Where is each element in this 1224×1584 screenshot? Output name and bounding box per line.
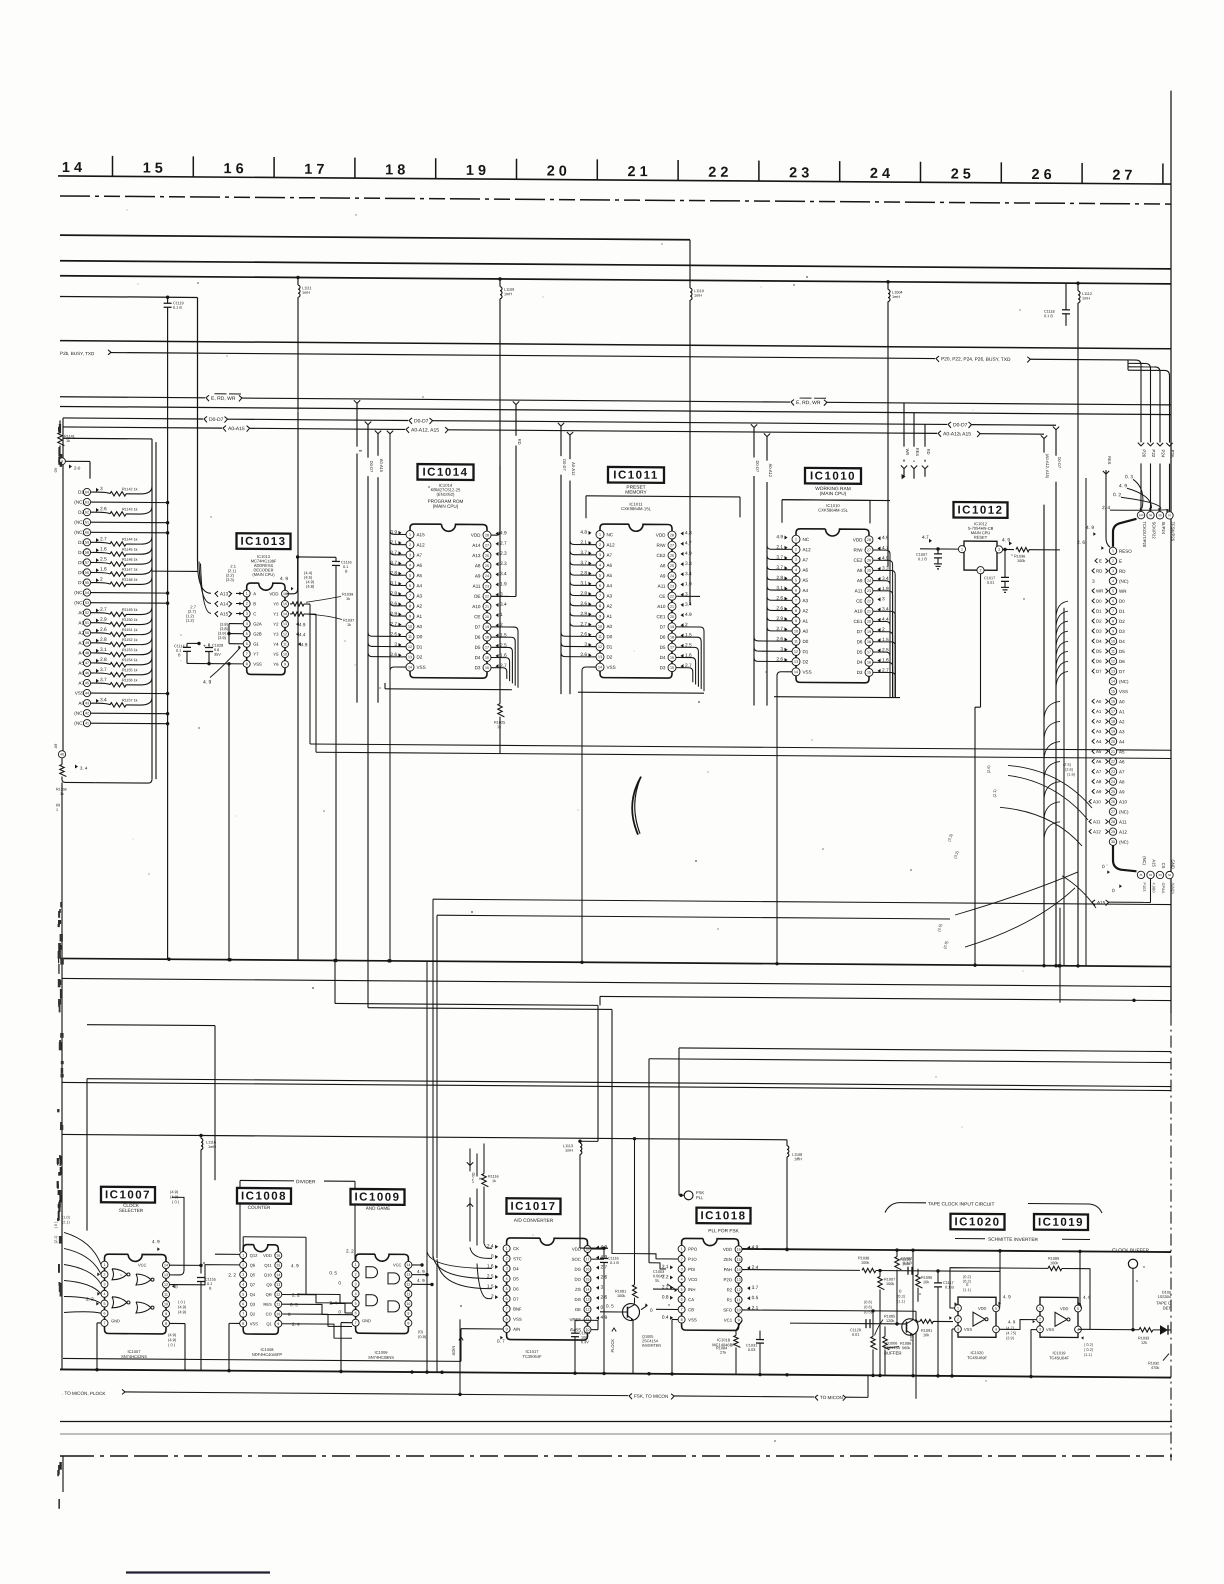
svg-text:D4: D4 [1119, 639, 1125, 644]
svg-text:R1144 1k: R1144 1k [122, 537, 138, 541]
svg-text:14: 14 [598, 665, 602, 669]
svg-text:6.3V: 6.3V [581, 1340, 589, 1344]
svg-text:A15: A15 [220, 611, 229, 616]
svg-text:A1: A1 [803, 619, 809, 624]
capacitor C1003 [653, 1270, 677, 1292]
svg-text:16: 16 [737, 1248, 741, 1252]
resistor R1154 [78, 657, 152, 667]
svg-text:2SC4154: 2SC4154 [884, 1346, 900, 1350]
svg-text:R1152 1k: R1152 1k [122, 638, 138, 642]
svg-text:E: E [358, 450, 363, 453]
wire bus D0-D7 d [972, 424, 1057, 427]
svg-text:P2b, BUSY, TXD: P2b, BUSY, TXD [60, 351, 95, 356]
svg-text:A11: A11 [658, 584, 666, 589]
IC U IC1014 body [390, 524, 507, 678]
wire IC1007 GND [95, 1323, 185, 1372]
svg-text:R1085: R1085 [884, 1314, 895, 1318]
svg-text:28: 28 [670, 533, 674, 537]
svg-text:A2: A2 [1119, 719, 1125, 724]
svg-text:D4: D4 [475, 655, 481, 660]
svg-text:DO: DO [575, 1277, 582, 1282]
svg-text:15: 15 [485, 666, 489, 670]
svg-text:SFO: SFO [723, 1308, 732, 1313]
svg-text:27k: 27k [720, 1351, 726, 1355]
svg-text:27: 27 [670, 544, 674, 548]
svg-text:5: 5 [1112, 589, 1114, 593]
svg-text:27: 27 [485, 544, 489, 548]
wire IC1014 right [491, 466, 518, 688]
svg-text:OE: OE [575, 1307, 581, 1312]
svg-text:Q6: Q6 [250, 1263, 256, 1268]
IC U IC1010 body [776, 529, 889, 683]
svg-text:(NC): (NC) [74, 721, 84, 726]
svg-text:R1090: R1090 [921, 1276, 932, 1280]
IC U IC1014 label [418, 464, 474, 509]
svg-text:29: 29 [1111, 830, 1115, 834]
svg-text:28: 28 [867, 538, 871, 542]
svg-text:12: 12 [164, 1283, 168, 1287]
svg-text:2 7: 2 7 [1112, 168, 1132, 184]
transistor Q1006 [790, 1249, 918, 1377]
svg-text:45: 45 [85, 681, 89, 685]
svg-text:CE: CE [659, 594, 665, 599]
wire IC1009 inputs2 [306, 1294, 352, 1313]
wire VDD rail bottom [580, 1247, 608, 1249]
svg-text:2-0: 2-0 [74, 466, 81, 471]
svg-text:IC1009: IC1009 [354, 1191, 400, 1203]
svg-text:DET: DET [1163, 1306, 1172, 1311]
svg-text:(1.9): (1.9) [1067, 772, 1076, 777]
resistor R1025 [494, 688, 505, 754]
IC U IC1010 label [805, 468, 861, 513]
svg-text:4. 9: 4. 9 [1119, 483, 1127, 489]
wire bus D0-D7 b [228, 419, 409, 420]
svg-text:2 6: 2 6 [1032, 167, 1052, 183]
svg-text:4: 4 [599, 563, 601, 567]
svg-text:1: 1 [1039, 1307, 1041, 1311]
svg-text:CA: CA [688, 1297, 694, 1302]
svg-text:VDD: VDD [572, 1247, 581, 1252]
svg-text:SN74HC08NS: SN74HC08NS [368, 1355, 394, 1360]
svg-text:G2B: G2B [253, 631, 262, 636]
svg-text:D1: D1 [607, 644, 613, 649]
svg-text:4: 4 [355, 1292, 357, 1296]
wire IC1011 under [578, 691, 704, 694]
svg-text:3: 3 [409, 553, 411, 557]
capacitor C1119 [164, 295, 184, 959]
svg-text:25: 25 [1111, 790, 1115, 794]
svg-text:0. 2: 0. 2 [1113, 492, 1121, 498]
svg-text:0V: 0V [54, 467, 58, 472]
svg-text:R1116: R1116 [488, 1175, 499, 1179]
svg-text:6: 6 [242, 1302, 244, 1306]
svg-text:9: 9 [277, 1322, 279, 1326]
wire R1091 [918, 1316, 953, 1338]
svg-text:3: 3 [601, 1285, 604, 1291]
svg-text:3: 3 [1112, 569, 1114, 573]
svg-text:1 5: 1 5 [143, 161, 163, 177]
wire IC1017 VDD [591, 1249, 604, 1259]
pin 40 A9 [54, 744, 152, 813]
wire E RD WR mid [242, 398, 790, 402]
svg-text:A9: A9 [857, 578, 863, 583]
svg-text:( 0 ): ( 0 ) [168, 1342, 176, 1347]
svg-text:P2O: P2O [723, 1277, 732, 1282]
svg-text:55: 55 [85, 581, 89, 585]
svg-text:A0-A15: A0-A15 [379, 459, 384, 473]
svg-text:2: 2 [355, 1272, 357, 1276]
wire bus D0-D7 c [433, 421, 948, 425]
svg-text:A12: A12 [1119, 830, 1128, 835]
wire IC1007 VCC [170, 1197, 203, 1275]
svg-text:1: 1 [246, 592, 248, 596]
svg-text:WR: WR [1096, 589, 1103, 594]
wire step S3 FSK feed [679, 1048, 1171, 1199]
svg-text:4.9: 4.9 [299, 622, 306, 627]
svg-text:3: 3 [599, 553, 601, 557]
svg-text:IC1010: IC1010 [810, 470, 856, 482]
svg-text:99: 99 [1149, 513, 1153, 517]
svg-text:MC14046BF: MC14046BF [712, 1342, 735, 1347]
svg-text:8: 8 [506, 1317, 508, 1321]
svg-text:A3: A3 [1096, 729, 1102, 734]
IC U IC1017 body [487, 1238, 608, 1340]
svg-text:2.8: 2.8 [100, 657, 107, 663]
capacitor C1155 [197, 1277, 216, 1370]
svg-text:4.9: 4.9 [500, 530, 507, 536]
svg-text:6: 6 [246, 642, 248, 646]
values IC1009 right [417, 1269, 427, 1339]
svg-text:L1004: L1004 [892, 291, 903, 295]
svg-text:57: 57 [85, 561, 89, 565]
svg-text:17: 17 [1111, 710, 1115, 714]
svg-text:11: 11 [737, 1298, 741, 1302]
IC1018 part number [712, 1337, 735, 1347]
svg-text:B: B [253, 601, 256, 606]
svg-text:R1145 1k: R1145 1k [122, 548, 138, 552]
svg-text:A14: A14 [220, 601, 229, 606]
svg-text:3.3: 3.3 [500, 561, 507, 567]
svg-text:23: 23 [485, 584, 489, 588]
capacitor C1028 [203, 643, 223, 663]
svg-text:A15: A15 [417, 532, 426, 537]
svg-text:CK: CK [513, 1246, 519, 1251]
svg-text:Q4: Q4 [250, 1292, 256, 1297]
resistor R1036 [1002, 537, 1060, 563]
svg-text:A3: A3 [803, 598, 809, 603]
svg-text:PLOCK: PLOCK [610, 1339, 615, 1353]
svg-text:(NC): (NC) [74, 600, 84, 605]
labels diode clock det [1138, 1290, 1171, 1370]
svg-text:12: 12 [276, 1293, 280, 1297]
svg-text:A11: A11 [1119, 820, 1127, 825]
svg-text:Q3: Q3 [250, 1302, 256, 1307]
svg-text:16: 16 [586, 1267, 590, 1271]
svg-text:6: 6 [355, 1311, 357, 1315]
svg-text:1k: 1k [66, 439, 70, 443]
svg-text:GND: GND [362, 1318, 371, 1323]
wire stub RD [922, 424, 931, 477]
values CPU top curves [1077, 474, 1169, 550]
svg-text:14: 14 [586, 1288, 590, 1292]
capacitor C1128 [850, 1319, 870, 1337]
svg-text:59: 59 [85, 541, 89, 545]
svg-text:R1147 1k: R1147 1k [122, 568, 138, 572]
svg-text:13: 13 [598, 655, 602, 659]
svg-text:18: 18 [485, 635, 489, 639]
ground C1007 [934, 564, 942, 569]
svg-text:3.4: 3.4 [500, 602, 507, 608]
svg-text:2: 2 [409, 543, 411, 547]
svg-text:A1: A1 [607, 614, 613, 619]
svg-text:1mH: 1mH [694, 294, 702, 298]
wire CPU pin1 elbow [1113, 519, 1137, 547]
svg-text:A4: A4 [1119, 739, 1125, 744]
svg-text:D7: D7 [475, 624, 481, 629]
svg-text:1.9: 1.9 [685, 581, 692, 587]
svg-text:A15: A15 [1151, 859, 1156, 867]
svg-text:12: 12 [408, 645, 412, 649]
svg-text:D6: D6 [475, 635, 481, 640]
svg-text:A0: A0 [1119, 699, 1125, 704]
svg-text:44: 44 [85, 691, 89, 695]
values Q1006 [864, 1288, 906, 1314]
svg-text:WR: WR [905, 449, 910, 456]
IC U IC1007 body [101, 1254, 170, 1334]
svg-text:(NC): (NC) [1119, 679, 1129, 684]
svg-text:3.4: 3.4 [500, 571, 507, 577]
resistor R1144 [78, 536, 152, 546]
svg-text:(NC): (NC) [1119, 840, 1129, 845]
svg-text:A3: A3 [1119, 729, 1125, 734]
svg-text:2.7: 2.7 [500, 541, 507, 547]
wire bus drop A0-A12 IC1010 [764, 433, 773, 705]
svg-text:IC1007: IC1007 [105, 1189, 151, 1201]
wire IC1014 under [385, 683, 512, 690]
svg-text:0.5: 0.5 [752, 1295, 759, 1301]
capacitor C1116b [600, 1246, 619, 1375]
svg-text:A0-A12: A0-A12 [768, 464, 773, 478]
svg-text:2 1: 2 1 [628, 164, 648, 180]
svg-text:NC: NC [607, 532, 614, 537]
wire bus A0-A15 [63, 418, 222, 428]
svg-text:2: 2 [242, 1263, 244, 1267]
svg-text:D100: D100 [1162, 1291, 1171, 1295]
svg-text:C1155: C1155 [205, 1278, 216, 1282]
svg-text:5: 5 [355, 1302, 357, 1306]
svg-text:D2: D2 [1119, 619, 1125, 624]
svg-text:47: 47 [85, 661, 89, 665]
value 3 pin4 [1092, 579, 1095, 585]
svg-text:P24: P24 [1161, 450, 1166, 458]
wire bus drop D0-D7 IC1014 [365, 421, 374, 960]
resistor R1150 [78, 617, 152, 627]
label tape clock input circuit [885, 1201, 1102, 1214]
IC U IC1018 body [662, 1238, 759, 1330]
svg-text:22: 22 [1111, 760, 1115, 764]
wire output clock [1079, 1325, 1171, 1335]
wire IC1008 VSS [227, 1323, 239, 1372]
values IC1020 left [955, 1274, 972, 1306]
svg-text:RES: RES [915, 448, 920, 457]
svg-text:7: 7 [104, 1321, 106, 1325]
values IC1007 right [152, 1189, 187, 1347]
svg-text:AND GAME: AND GAME [366, 1206, 391, 1211]
svg-text:INH: INH [688, 1287, 695, 1292]
wire IC1018 SFO FSK [742, 1310, 918, 1399]
svg-text:16: 16 [485, 656, 489, 660]
svg-text:5: 5 [506, 1287, 508, 1291]
svg-text:98: 98 [1158, 513, 1162, 517]
svg-text:IC1020: IC1020 [954, 1216, 1000, 1228]
svg-text:D6: D6 [660, 635, 666, 640]
svg-text:2.5: 2.5 [100, 557, 107, 563]
svg-text:Q1: Q1 [266, 1321, 272, 1326]
svg-text:4: 4 [242, 1283, 244, 1287]
svg-text:Q5: Q5 [250, 1272, 256, 1277]
svg-text:10: 10 [406, 1302, 410, 1306]
svg-text:D1: D1 [803, 649, 809, 654]
values IC1013 far left [186, 604, 197, 623]
svg-text:A8: A8 [475, 563, 481, 568]
resistor R1148 [78, 576, 152, 586]
svg-text:RD: RD [926, 449, 931, 455]
svg-text:PPO: PPO [688, 1247, 698, 1252]
svg-text:4: 4 [104, 1292, 106, 1296]
svg-text:48: 48 [85, 651, 89, 655]
svg-text:(4.9): (4.9) [178, 1309, 187, 1314]
svg-text:0.1 B: 0.1 B [1044, 314, 1053, 318]
svg-text:(3.9): (3.9) [218, 635, 227, 640]
IC1007 part number [121, 1349, 147, 1359]
svg-text:27: 27 [867, 548, 871, 552]
IC U IC1011 label [608, 467, 664, 511]
wire ground rail bottom [60, 1368, 1171, 1380]
svg-text:A10: A10 [472, 604, 481, 609]
pin 44 VSS [75, 689, 170, 697]
svg-text:E: E [1099, 558, 1102, 563]
svg-text:6.8: 6.8 [214, 648, 219, 652]
resistor R1145 [78, 546, 152, 556]
svg-text:(NC): (NC) [1142, 856, 1147, 865]
svg-text:D4: D4 [660, 655, 666, 660]
svg-text:D5: D5 [1119, 649, 1125, 654]
svg-text:R1032: R1032 [1148, 1361, 1159, 1365]
svg-text:61: 61 [85, 520, 89, 524]
svg-text:50: 50 [85, 631, 89, 635]
svg-text:0.1: 0.1 [176, 649, 181, 653]
svg-text:17: 17 [586, 1257, 590, 1261]
wire supply line E [62, 1134, 787, 1139]
svg-text:R1151 1k: R1151 1k [122, 628, 138, 632]
wire FSK drop [458, 1319, 461, 1396]
svg-text:2 2: 2 2 [708, 165, 728, 181]
svg-text:0.1 B: 0.1 B [918, 557, 927, 561]
svg-text:D1: D1 [417, 644, 423, 649]
svg-text:7: 7 [355, 1321, 357, 1325]
svg-text:A13: A13 [472, 553, 481, 558]
svg-text:4. 9: 4. 9 [152, 1239, 160, 1244]
svg-text:A0-A12: A0-A12 [571, 462, 576, 476]
svg-text:PLL: PLL [696, 1195, 704, 1200]
svg-text:2.8: 2.8 [100, 637, 107, 643]
svg-text:VSS: VSS [1119, 689, 1128, 694]
svg-text:10: 10 [737, 1308, 741, 1312]
svg-text:16: 16 [670, 656, 674, 660]
svg-text:0: 0 [338, 1280, 341, 1285]
wire IC1013 VSS [187, 662, 243, 962]
svg-text:A4: A4 [1096, 739, 1102, 744]
svg-text:1 9: 1 9 [466, 163, 486, 179]
svg-text:SI/P24: SI/P24 [1161, 522, 1166, 535]
svg-text:3.3: 3.3 [685, 561, 692, 567]
svg-text:4. 9: 4. 9 [280, 576, 288, 582]
svg-text:12: 12 [1111, 659, 1115, 663]
svg-text:R1148 1k: R1148 1k [122, 578, 138, 582]
svg-text:1k: 1k [346, 597, 350, 601]
svg-text:2.7: 2.7 [100, 536, 107, 542]
wire IC1013 G2 tie [227, 624, 243, 644]
svg-text:A4: A4 [607, 583, 613, 588]
svg-text:D0: D0 [417, 634, 423, 639]
svg-text:D0: D0 [1096, 599, 1102, 604]
net label D0-D7 1 [204, 416, 228, 423]
resistor R1007 [878, 1269, 895, 1377]
svg-text:11: 11 [283, 642, 287, 646]
svg-text:5: 5 [795, 578, 797, 582]
wire step S4 [649, 1059, 1171, 1267]
pin 63 (NC) [74, 498, 169, 506]
wire left edge [61, 782, 63, 1368]
svg-text:VSS: VSS [964, 1327, 972, 1332]
inductor L1004 [886, 280, 902, 567]
svg-text:SN74HC02NS: SN74HC02NS [121, 1354, 147, 1359]
wire bottom line 1 [60, 1421, 1172, 1423]
border right [1170, 91, 1172, 1461]
svg-text:470k: 470k [1151, 1366, 1159, 1370]
svg-text:8: 8 [242, 1322, 244, 1326]
svg-text:26: 26 [670, 554, 674, 558]
svg-text:1: 1 [957, 1306, 959, 1310]
svg-text:2 0: 2 0 [547, 164, 567, 180]
wire bus drop D0-D7 CPU [1053, 427, 1062, 968]
svg-text:17: 17 [485, 646, 489, 650]
svg-text:0: 0 [650, 1308, 653, 1313]
svg-text:3.1: 3.1 [100, 647, 107, 653]
svg-text:4.7: 4.7 [922, 535, 929, 541]
svg-text:6: 6 [599, 584, 601, 588]
svg-text:Y4: Y4 [273, 642, 279, 647]
svg-text:7: 7 [795, 599, 797, 603]
resistor R1152 [78, 637, 152, 647]
wire clock supply line [742, 1247, 1171, 1254]
svg-text:VSS: VSS [607, 665, 616, 670]
svg-text:24: 24 [1111, 780, 1115, 784]
svg-text:+: + [203, 643, 206, 649]
svg-text:8: 8 [246, 662, 248, 666]
wire bus top 1 [60, 235, 690, 240]
wire curves CPU addr [1044, 701, 1060, 839]
svg-text:A9: A9 [475, 573, 481, 578]
values IC1019 [1081, 1336, 1094, 1357]
svg-text:41: 41 [85, 721, 89, 725]
wire stub RES [911, 413, 920, 479]
svg-text:43: 43 [85, 701, 89, 705]
svg-text:P1O: P1O [688, 1257, 697, 1262]
svg-text:9: 9 [407, 1312, 409, 1316]
resistor R1149 [78, 607, 152, 617]
svg-text:A10: A10 [1093, 799, 1101, 804]
